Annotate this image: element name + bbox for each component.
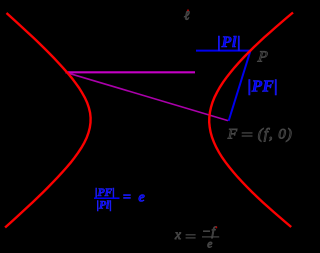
svg-text:e: e (207, 239, 212, 251)
svg-text:|PF|: |PF| (95, 187, 115, 199)
svg-text:|Pl|: |Pl| (217, 34, 241, 51)
svg-text:= e: = e (123, 190, 147, 206)
svg-text:|Pl|: |Pl| (97, 200, 112, 212)
svg-text:ℓ: ℓ (184, 8, 190, 23)
svg-text:x: x (174, 227, 181, 242)
svg-text:−f: −f (202, 223, 217, 238)
svg-text:F: F (227, 126, 238, 143)
svg-text:|PF|: |PF| (248, 77, 278, 96)
svg-text:(f, 0): (f, 0) (258, 126, 293, 143)
